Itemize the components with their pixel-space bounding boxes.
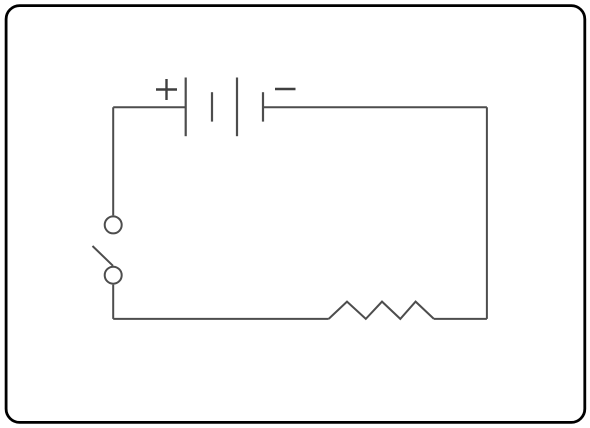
- wire top-left (battery + to left corner): [113, 106, 186, 108]
- wire bottom-left (left corner to resistor): [113, 318, 329, 320]
- wire top-right (battery - to right corner): [263, 106, 487, 108]
- switch S1 lower terminal: [105, 267, 122, 284]
- switch S1 arm (open): [93, 246, 114, 266]
- wire bottom-right (resistor to right corner): [434, 318, 487, 320]
- wire right side: [486, 107, 488, 319]
- wire left upper (top corner to switch top terminal): [112, 107, 114, 215]
- resistor R1: [329, 302, 434, 319]
- battery positive label +: [156, 79, 177, 100]
- battery negative label -: [275, 88, 296, 90]
- wire left lower (switch bottom terminal to bottom corner): [112, 285, 114, 319]
- battery B1: [186, 78, 263, 137]
- switch S1 upper terminal: [105, 216, 122, 233]
